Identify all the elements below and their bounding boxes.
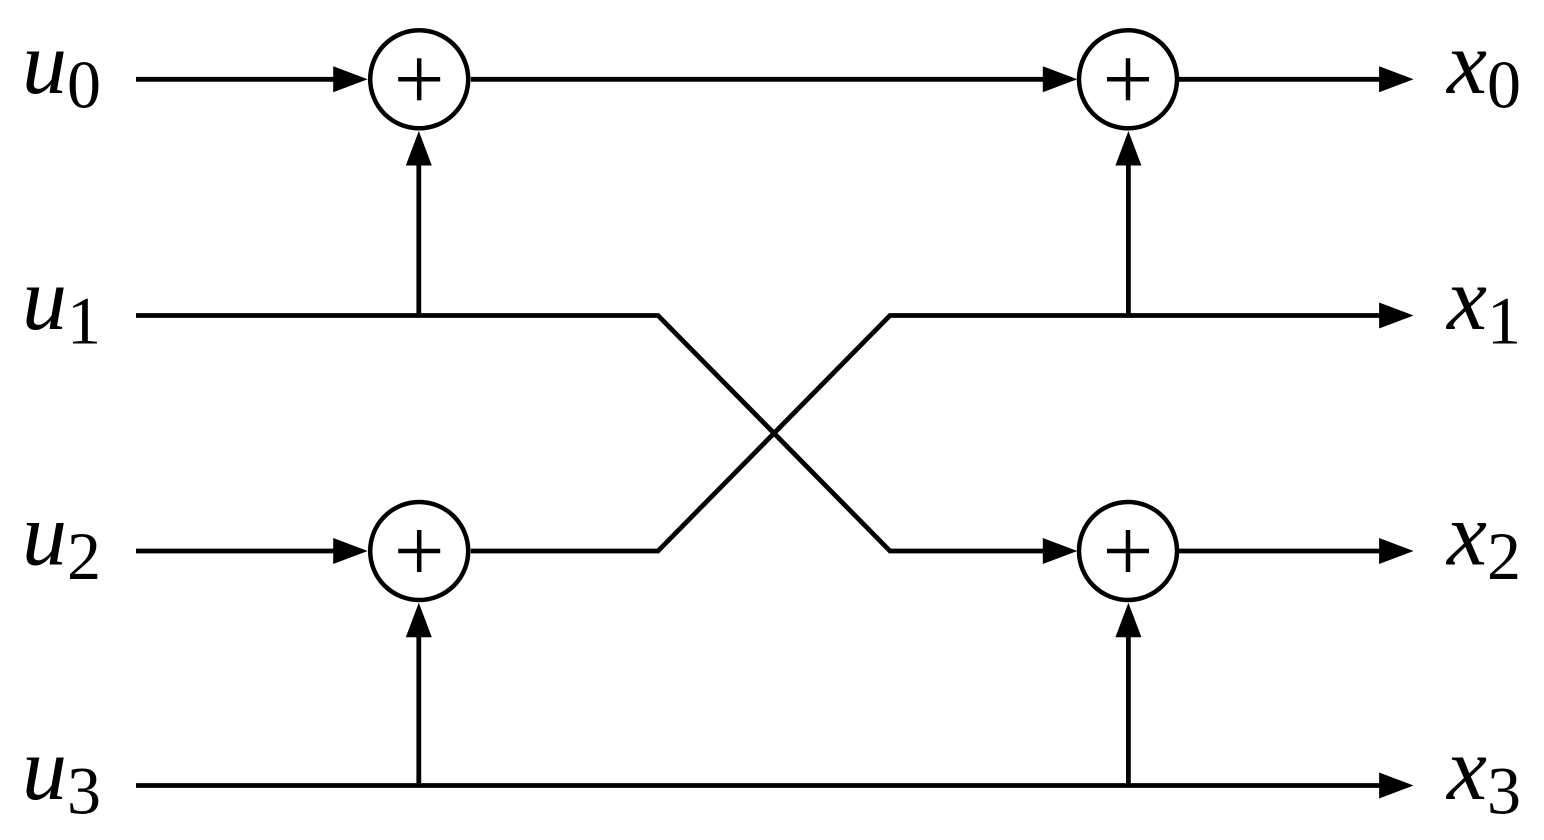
svg-text:x2: x2 (1445, 486, 1521, 595)
wire u1 with crossover down (136, 316, 1052, 552)
arrowhead tap into A3 bottom (406, 603, 432, 638)
svg-text:x1: x1 (1445, 250, 1521, 359)
wire tap u3 up to adder4 (1126, 634, 1131, 786)
adder A3 (XOR circle bottom-left) (370, 502, 468, 600)
arrowhead into adder A2 (1043, 66, 1078, 92)
wire u2 input (136, 549, 340, 554)
arrowhead to x2 (1379, 538, 1414, 564)
arrowhead into adder A3 (333, 538, 368, 564)
arrowhead to x1 (1379, 303, 1414, 329)
wire adder3 out with crossover up to x1 (471, 316, 1386, 552)
wire adder4 to x2 (1179, 549, 1386, 554)
wire adder2 to x0 (1179, 77, 1386, 82)
wire tap u3 up to adder3 (416, 634, 421, 786)
adder A1 (XOR circle top-left) (370, 30, 468, 128)
svg-text:u0: u0 (22, 14, 101, 123)
arrowhead to x0 (1379, 66, 1414, 92)
arrowhead to x3 (1379, 773, 1414, 799)
svg-text:u2: u2 (22, 486, 101, 595)
arrowhead into adder A1 (333, 66, 368, 92)
arrowhead tap into A4 bottom (1115, 603, 1141, 638)
wire adder1 to adder2 (471, 77, 1052, 82)
svg-text:x0: x0 (1445, 14, 1521, 123)
wire u0 input (136, 77, 340, 82)
wire u3 to x3 (136, 783, 1386, 788)
wire tap u1 up to adder1 (416, 162, 421, 316)
wire tap to adder2 (1126, 162, 1131, 316)
adder A2 (XOR circle top-right) (1079, 30, 1177, 128)
arrowhead tap into A1 bottom (406, 131, 432, 166)
arrowhead into adder A4 (1043, 538, 1078, 564)
svg-text:u3: u3 (22, 720, 101, 829)
svg-text:x3: x3 (1445, 720, 1521, 829)
svg-text:u1: u1 (22, 250, 101, 359)
adder A4 (XOR circle bottom-right) (1079, 502, 1177, 600)
arrowhead tap into A2 bottom (1115, 131, 1141, 166)
